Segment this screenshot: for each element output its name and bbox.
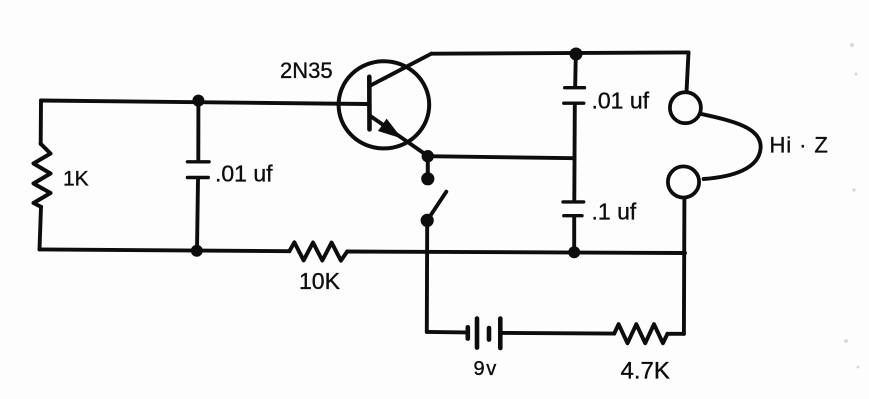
transistor Q1 emitter line (370, 115, 428, 156)
wire: left vertical top lead (39, 101, 43, 144)
capacitor C2 .01uf top lead (573, 54, 577, 86)
capacitor C1 .01uf top lead (196, 101, 200, 160)
wire: stub between emitter dot and switch dot (426, 156, 430, 178)
wire: battery left lead (427, 330, 466, 334)
phone jack bottom circle (668, 166, 699, 197)
svg-text:.01 uf: .01 uf (215, 161, 273, 187)
node: emitter junction dot (422, 150, 434, 162)
battery B1 long plate 2 (498, 319, 503, 349)
capacitor C3 .1uf top plate (563, 200, 584, 203)
transistor Q1 base bar (367, 77, 372, 130)
svg-text:10K: 10K (299, 268, 341, 294)
wire: bottom rail left of 10K (40, 249, 290, 251)
capacitor C1 bottom plate (187, 176, 208, 179)
phone cord arc (701, 114, 761, 179)
svg-text:1K: 1K (63, 168, 89, 191)
svg-text:Hi · Z: Hi · Z (770, 132, 829, 157)
transistor Q1 circle (339, 61, 430, 148)
capacitor C2 bottom plate (564, 101, 584, 104)
wire: top rail (431, 52, 688, 53)
switch S1 upper contact dot (421, 172, 434, 185)
wire: battery to 4.7K (503, 331, 615, 336)
paper speckle (850, 43, 854, 47)
capacitor C3 bottom plate (564, 214, 582, 217)
capacitor C1 bottom lead (197, 179, 198, 250)
wire: right vertical from phones to battery row (682, 198, 686, 334)
resistor R2 10K zigzag (289, 242, 347, 260)
battery B1 terminal nub (465, 327, 470, 338)
wire: switch down to battery (425, 220, 429, 332)
svg-text:4.7K: 4.7K (621, 358, 670, 385)
svg-text:.1 uf: .1 uf (592, 199, 637, 225)
transistor Q1 emitter arrowhead (378, 119, 402, 139)
wire: bottom rail right of 10K (347, 252, 685, 254)
wire: top-right corner down to phone (687, 52, 689, 92)
switch S1 lower contact dot (421, 214, 434, 227)
capacitor C2 top plate (565, 86, 585, 89)
node: junction dot bottom-left rail (191, 245, 203, 257)
svg-text:9v: 9v (474, 358, 498, 380)
svg-text:2N35: 2N35 (280, 58, 333, 83)
wire: left vertical bottom lead (40, 207, 42, 250)
resistor R1 1K zigzag (34, 144, 51, 207)
capacitor C3 bottom lead (572, 217, 576, 251)
wire: 4.7K to right vertical (668, 332, 684, 336)
resistor R3 4.7K zigzag (614, 324, 667, 343)
battery B1 short plate (487, 328, 492, 340)
svg-text:.01 uf: .01 uf (592, 88, 650, 114)
node: junction dot top-left (192, 95, 204, 107)
wire: top-left base wire (41, 101, 368, 105)
transistor Q1 collector line (370, 54, 432, 86)
switch S1 arm (427, 192, 446, 221)
phone jack top circle (670, 92, 701, 123)
node: junction dot bottom rail at C3 (568, 246, 580, 258)
node: junction dot top rail (570, 48, 583, 61)
wire: middle vertical between C2 and C3 (572, 105, 576, 200)
wire: emitter to capacitor tee (428, 156, 575, 158)
battery B1 long plate 1 (475, 319, 480, 348)
capacitor C1 top plate (187, 160, 209, 163)
